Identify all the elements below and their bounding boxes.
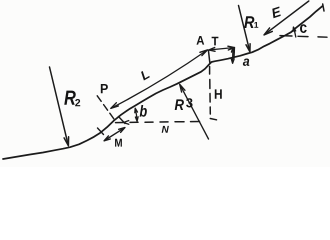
label H xyxy=(215,89,222,98)
angle arrow b xyxy=(135,108,138,121)
label T xyxy=(212,37,219,46)
terrain end tick xyxy=(323,4,324,11)
force arrow E xyxy=(264,1,309,35)
force arrow R3 xyxy=(180,84,209,139)
label c xyxy=(300,24,307,33)
dimension arrow M xyxy=(104,128,125,141)
force arrow R2 xyxy=(50,67,69,146)
angle arrow c xyxy=(293,27,296,37)
block tick left (point A) xyxy=(208,50,209,62)
label R3 xyxy=(175,99,184,110)
dimension M ticks xyxy=(98,117,126,135)
label R2 subscript xyxy=(75,99,80,106)
force arrow R1 xyxy=(239,6,251,52)
dashed vertical H xyxy=(210,67,217,120)
label M xyxy=(115,139,122,147)
dashed baseline c xyxy=(280,36,327,38)
terrain curve xyxy=(3,6,322,159)
label R1 xyxy=(244,16,254,28)
label a xyxy=(243,59,249,66)
label N xyxy=(162,126,169,133)
label R3 subscript xyxy=(186,98,192,107)
label R1 subscript xyxy=(254,22,258,28)
arrowhead at baseline start xyxy=(124,121,129,125)
label b xyxy=(140,105,147,117)
label L xyxy=(141,71,150,81)
label R2 xyxy=(64,91,75,105)
dimension line T xyxy=(209,46,235,51)
dimension line L xyxy=(111,50,208,109)
block tick right xyxy=(233,48,236,59)
dashed action line of P xyxy=(97,96,114,119)
label P xyxy=(101,84,108,93)
dimension arrow a xyxy=(231,48,234,63)
label A xyxy=(196,36,204,45)
label E xyxy=(272,7,280,19)
dashed baseline N xyxy=(116,122,200,123)
